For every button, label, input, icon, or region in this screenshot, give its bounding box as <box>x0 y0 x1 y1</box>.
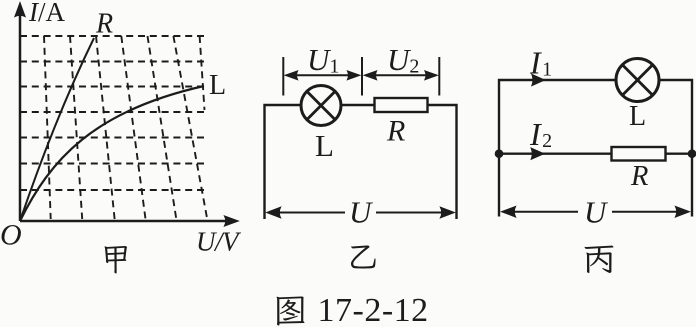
lamp L (丙) <box>616 59 659 102</box>
y-axis arrowhead <box>15 2 26 17</box>
wire: circuit loop 乙 <box>265 105 457 219</box>
y-axis <box>19 14 22 221</box>
junction dot left <box>495 150 503 158</box>
U2 arrow line <box>366 74 435 76</box>
svg-text:I/A: I/A <box>28 0 66 27</box>
tick left (U1) <box>282 57 284 96</box>
U2 left arrowhead <box>364 71 378 81</box>
svg-text:R: R <box>386 115 405 148</box>
U1 right arrowhead <box>347 71 361 81</box>
label 乙 <box>351 245 375 268</box>
U arrowhead left (丙) <box>501 206 516 217</box>
svg-text:U/V: U/V <box>196 227 242 257</box>
U arrow line (丙) <box>505 211 686 213</box>
label 丙 <box>585 246 614 273</box>
U1 left arrowhead <box>285 71 299 81</box>
resistor R (丙) <box>612 147 666 161</box>
I2 current arrowhead <box>531 148 545 160</box>
tick middle (U1/U2) <box>361 57 363 96</box>
U arrowhead right (丙) <box>675 206 690 217</box>
svg-text:O: O <box>0 219 22 252</box>
U1 arrow line <box>288 74 357 76</box>
x-axis <box>20 220 226 223</box>
line R <box>20 38 94 221</box>
U arrowhead left (乙) <box>266 207 281 218</box>
I1 current arrowhead <box>532 74 546 86</box>
lamp L (乙) <box>301 86 341 126</box>
svg-text:U: U <box>584 195 609 230</box>
U arrow line (乙) <box>270 212 451 214</box>
curve L <box>20 86 204 221</box>
resistor R (乙) <box>375 98 428 112</box>
caption 图 <box>277 297 305 326</box>
junction dot right <box>688 150 696 158</box>
svg-text:L: L <box>629 101 646 132</box>
tick right (U2) <box>438 57 440 96</box>
U2 right arrowhead <box>425 71 439 81</box>
svg-text:17-2-12: 17-2-12 <box>318 292 429 327</box>
svg-text:L: L <box>315 128 334 163</box>
svg-text:R: R <box>630 161 648 192</box>
grid vertical dashed lines <box>44 36 207 219</box>
label 甲 <box>104 246 126 274</box>
U arrowhead right (乙) <box>440 207 455 218</box>
svg-text:U: U <box>349 195 374 230</box>
wire: middle branch 丙 <box>499 152 692 154</box>
wire: outer loop 丙 <box>499 80 692 217</box>
grid horizontal dashed lines <box>20 36 207 219</box>
svg-text:L: L <box>209 70 226 101</box>
svg-text:R: R <box>95 9 113 40</box>
x-axis arrowhead <box>224 216 239 227</box>
